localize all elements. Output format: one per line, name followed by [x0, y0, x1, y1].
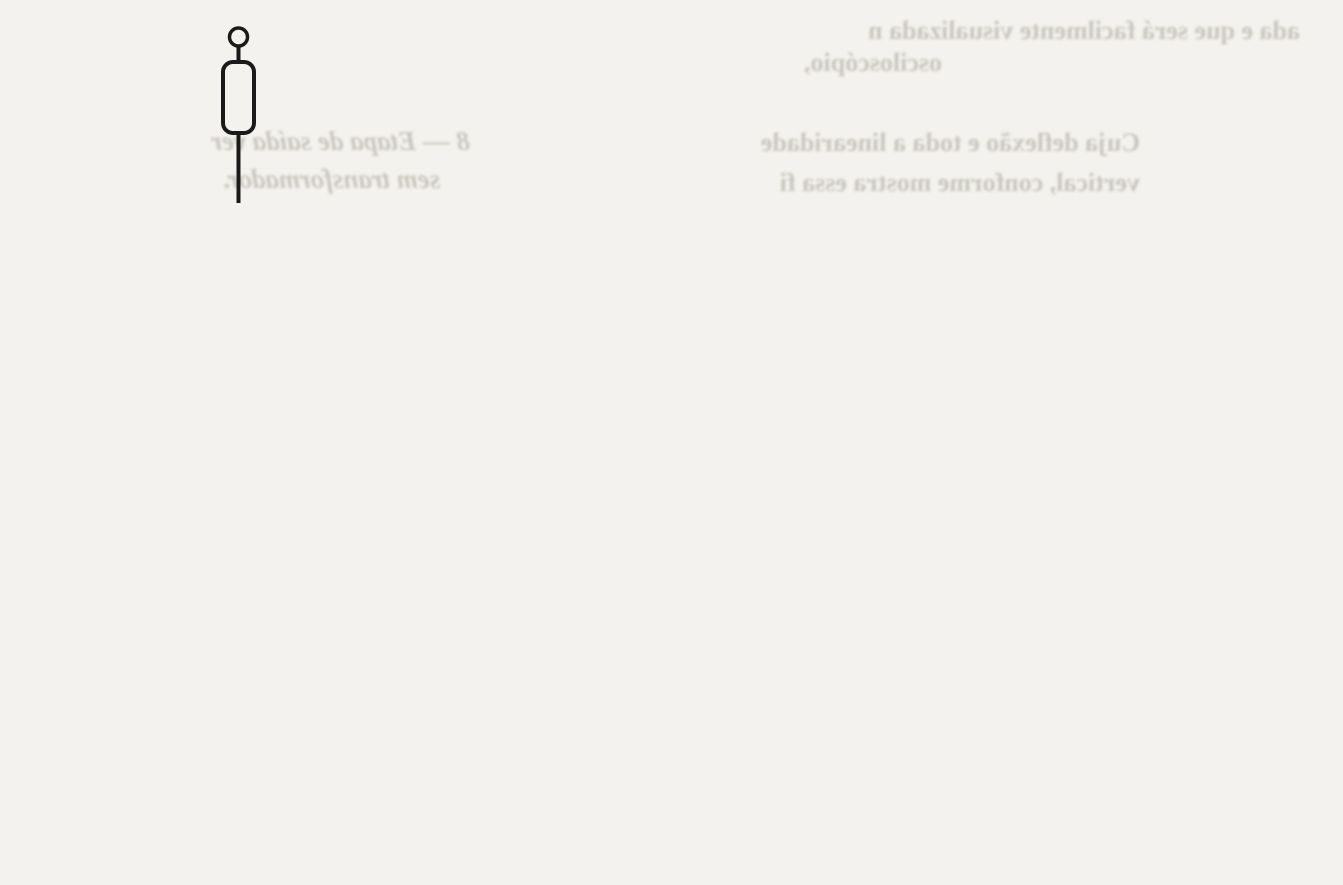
- wire terminal to R820: [237, 46, 241, 62]
- wire R820 to junction: [237, 133, 241, 203]
- ghost show-through text layer: [660, 16, 1300, 46]
- terminal +33: [230, 28, 248, 46]
- resistor R 820ohm: [223, 62, 254, 133]
